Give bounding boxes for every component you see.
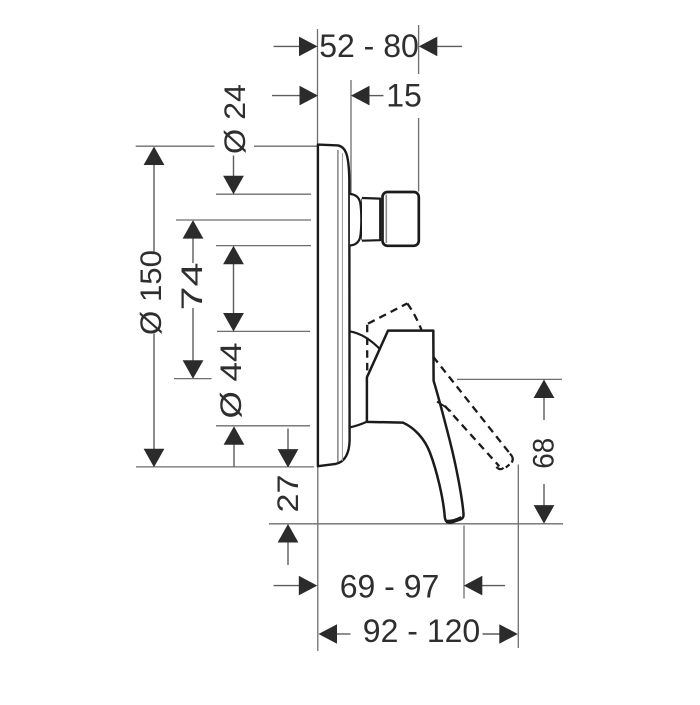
- arrow 68 bottom: [534, 505, 555, 523]
- arrow 92-120 left: [319, 624, 338, 644]
- ext line knob center: [176, 219, 311, 221]
- ext line knob front vertical: [418, 25, 420, 192]
- arrow 68 top: [534, 380, 555, 399]
- dashed raised lever lower edge: [445, 406, 500, 467]
- arrow 69-97 left: [299, 576, 318, 596]
- wall plate: [318, 145, 350, 467]
- tail dia24-44 middle: [233, 264, 235, 315]
- lever tip cap thick edge: [446, 518, 461, 522]
- ext line knob top: [216, 193, 311, 195]
- ext line hub top: [217, 330, 310, 332]
- svg-text:92 - 120: 92 - 120: [363, 613, 480, 649]
- arrow dia44 bottom: [224, 426, 245, 445]
- lever grip contour: [437, 402, 451, 412]
- svg-text:74: 74: [176, 263, 209, 311]
- leader 52-80 right: [437, 45, 463, 47]
- knob head inner line: [385, 195, 387, 244]
- ext line handle bottom: [269, 523, 563, 525]
- ext line hub bottom: [216, 425, 310, 427]
- leader 69-97 right: [482, 585, 505, 587]
- arrow 15 left: [300, 86, 319, 106]
- escutcheon dome 44 top arc: [350, 331, 382, 351]
- svg-text:Ø 150: Ø 150: [135, 250, 168, 335]
- arrow 52-80 right: [419, 37, 438, 57]
- dashed raised hub top edge: [368, 303, 407, 323]
- ext line wall vertical bottom: [317, 467, 319, 651]
- dashed raised lever upper edge: [433, 357, 511, 456]
- escutcheon dome 44 bottom arc: [350, 422, 367, 428]
- arrow 74 bottom: [183, 360, 204, 379]
- tail 74 bottom: [192, 308, 194, 361]
- svg-text:27: 27: [272, 475, 305, 513]
- leader 52-80 left: [274, 45, 301, 47]
- dashed raised hub right edge: [407, 303, 421, 330]
- tail dia44 bottom: [233, 444, 235, 467]
- tail 74 top: [192, 238, 194, 263]
- ext line hub center: [174, 378, 212, 380]
- leader 69-97 left: [274, 585, 301, 587]
- handle hub and lever: [367, 331, 464, 523]
- dashed lever tip corner right: [510, 454, 513, 463]
- ext line wall vertical top: [317, 29, 319, 144]
- ext line sleeve front vertical: [350, 80, 352, 194]
- tail 27 bottom: [287, 542, 289, 566]
- ext line max reach vertical: [517, 465, 519, 649]
- stub 92-120 left: [337, 633, 351, 635]
- knob head: [383, 192, 419, 246]
- tail dia150 top: [153, 165, 155, 252]
- arrow 52-80 left: [299, 37, 318, 57]
- dashed lever tip middle dash: [506, 465, 510, 468]
- tail dia150 bottom: [153, 334, 155, 450]
- ext line knob bottom: [216, 245, 311, 247]
- svg-text:Ø 24: Ø 24: [219, 84, 252, 154]
- knob neck: [362, 198, 380, 241]
- arrow 15 right: [351, 86, 370, 106]
- plate inner contour line: [337, 150, 339, 462]
- plate inner highlight line: [341, 153, 343, 461]
- dashed raised hub left edge: [366, 325, 368, 377]
- ext line plate bottom: [136, 466, 314, 468]
- tail 68 bottom: [543, 484, 545, 506]
- svg-text:69 - 97: 69 - 97: [340, 569, 440, 605]
- knob sleeve dome: [350, 194, 361, 246]
- stub 92-120 right: [483, 633, 500, 635]
- dashed lever tip corner bottom: [496, 467, 503, 469]
- tail 27 top: [287, 429, 289, 451]
- arrow 27 top: [278, 449, 299, 468]
- arrow 74 top: [183, 220, 204, 239]
- ext line 68 top: [457, 378, 562, 380]
- arrow dia24 bottom: [223, 246, 244, 264]
- svg-text:52 - 80: 52 - 80: [319, 28, 419, 64]
- tail 68 top: [543, 397, 545, 420]
- arrow dia24 top: [223, 176, 244, 195]
- arrow dia150 top: [144, 147, 165, 166]
- svg-text:15: 15: [386, 77, 422, 113]
- arrow dia150 bottom: [144, 449, 165, 468]
- leader 15 left: [272, 95, 301, 97]
- knob neck left edge: [361, 198, 363, 240]
- tail dia24 top: [233, 156, 235, 178]
- svg-text:68: 68: [528, 438, 561, 469]
- svg-text:Ø 44: Ø 44: [215, 343, 248, 419]
- arrow 69-97 right: [464, 576, 483, 596]
- ext line handle reach vertical: [463, 526, 465, 599]
- arrow 27 bottom: [278, 524, 299, 543]
- leader 15 right: [369, 95, 384, 97]
- arrow dia44 top: [223, 313, 244, 332]
- arrow 92-120 right: [499, 624, 518, 644]
- ext line plate top: [136, 145, 317, 147]
